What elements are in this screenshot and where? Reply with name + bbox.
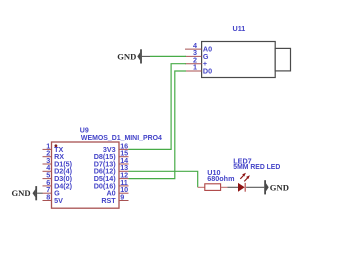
svg-text:8: 8 — [46, 192, 50, 201]
wire U11 pin 2 (+) to U9 pin 16 (3V3) — [129, 64, 187, 150]
ground GND top-left — [117, 49, 150, 63]
svg-text:D0: D0 — [203, 66, 212, 75]
ground GND at U9 pin 7 — [11, 186, 42, 200]
U11 pin 1 (D0) — [185, 63, 212, 76]
module U11 body — [202, 42, 291, 78]
U9 pin 16 (3V3) — [103, 141, 129, 154]
ground GND right of LED — [264, 180, 289, 194]
U11 pin 2 (+) — [185, 55, 207, 68]
svg-text:U9: U9 — [80, 127, 89, 134]
U11 pin 4 (A0) — [185, 41, 212, 54]
svg-text:9: 9 — [120, 192, 124, 201]
U9 pin 7 (G) — [43, 185, 61, 198]
U9 pin 1 (TX) — [43, 141, 64, 154]
U9 pin 4 (D2) — [43, 163, 73, 176]
U11 pin 3 (G) — [185, 48, 209, 61]
U9 pin 14 (D7) — [94, 156, 129, 169]
LED LED7 — [227, 173, 264, 192]
wire GND to U11 pin 3 — [150, 55, 186, 57]
U9 pin 15 (D8) — [94, 149, 129, 162]
svg-text:GND: GND — [270, 182, 289, 192]
svg-text:RST: RST — [101, 196, 116, 205]
U9 pin 13 (D6) — [94, 163, 129, 176]
U9 pin 5 (D3) — [43, 171, 73, 184]
wire U11 pin 1 (D0) to U9 pin 12 (D5) — [129, 71, 187, 179]
U9 pin 10 (A0) — [106, 185, 128, 198]
U9 pin 6 (D4) — [43, 178, 73, 191]
svg-text:5V: 5V — [54, 196, 63, 205]
U9 pin 11 (D0) — [94, 178, 129, 191]
U9 pin 3 (D1) — [43, 156, 73, 169]
svg-text:U11: U11 — [233, 24, 246, 33]
svg-text:GND: GND — [11, 188, 30, 198]
svg-text:GND: GND — [117, 51, 136, 61]
resistor U10 — [198, 184, 228, 191]
U9 pin 8 (5V) — [43, 192, 64, 205]
svg-text:680ohm: 680ohm — [207, 174, 234, 183]
U9 pin 12 (D5) — [94, 171, 129, 184]
svg-text:1: 1 — [193, 63, 197, 72]
U9 pin 9 (RST) — [101, 192, 128, 205]
IC U9 body — [52, 142, 120, 208]
wire U9 pin 13 (D6) to resistor U10 — [129, 171, 198, 187]
U9 pin 2 (RX) — [43, 149, 65, 162]
svg-text:5MM RED LED: 5MM RED LED — [233, 162, 280, 171]
